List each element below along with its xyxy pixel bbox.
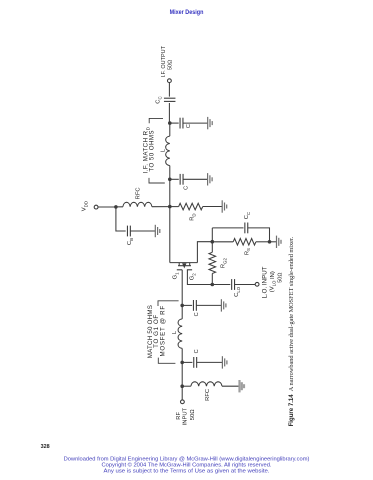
wire IF node2 to supply node (169, 179, 171, 206)
svg-text:C: C (194, 349, 200, 353)
wire drain lead (169, 207, 171, 263)
wire source lead to Rs node (197, 242, 212, 263)
label G2 (189, 273, 196, 281)
svg-text:CLO: CLO (234, 286, 241, 297)
wire RF node1 to shunt C (182, 304, 192, 306)
resistor RG2 (209, 242, 216, 285)
svg-text:Mixer Design: Mixer Design (170, 9, 204, 16)
svg-text:CB: CB (127, 238, 134, 245)
label RFC (RF input) (205, 389, 211, 401)
wire Cc branch right part (248, 228, 270, 242)
svg-text:Any use is subject to the Term: Any use is subject to the Terms of Use a… (104, 468, 270, 474)
wire C to ground (IF1) (183, 122, 208, 124)
ground RF shunt 1 (221, 299, 226, 311)
svg-text:MOSFET @ RF: MOSFET @ RF (159, 305, 166, 356)
transistor Q1 dual-gate MOSFET body (170, 263, 198, 270)
wire CB to ground (130, 230, 155, 232)
wire IF node1 to shunt C (170, 122, 179, 124)
node junction RG2/CLO (C) (211, 283, 215, 287)
wire Cc branch left part (212, 227, 243, 229)
ground Rs (277, 236, 282, 248)
node junction source/RG2 (A) (211, 240, 215, 244)
wire IF node1 to L (169, 123, 171, 136)
capacitor C (RF shunt 1) (193, 300, 196, 311)
svg-text:RS: RS (244, 248, 251, 255)
label C (IF shunt 2) (184, 186, 190, 190)
label C (RF shunt 2) (194, 349, 200, 353)
wire node B to ground (270, 241, 277, 243)
ground CB (155, 225, 160, 237)
wire IF terminal to Cc (168, 83, 170, 97)
label page number 328 (41, 444, 50, 450)
label RG2 (221, 258, 228, 269)
svg-text:Figure 7.14 A narrowband acti: Figure 7.14 A narrowband active dual-gat… (288, 236, 295, 426)
node junction IF-1 (168, 121, 172, 125)
wire C to ground (RF1) (196, 304, 221, 306)
capacitor C (IF shunt 2) (180, 174, 183, 185)
wire C to ground (IF2) (183, 178, 208, 180)
label I.F. MATCH RD TO 50 OHMS (143, 126, 156, 173)
node junction RF-2 (180, 361, 184, 365)
wire L to IF node 2 (169, 166, 171, 180)
bracket RF match top mark (158, 301, 179, 306)
node junction drain/supply (168, 205, 172, 209)
node junction Rs/Cc/ground (B) (268, 240, 272, 244)
capacitor CLO (232, 279, 235, 290)
svg-text:TO 50 OHMS: TO 50 OHMS (149, 130, 156, 172)
label L (RF) (172, 330, 178, 334)
wire Cc to IF node 1 (168, 103, 170, 123)
wire node C to CLO (212, 284, 230, 286)
capacitor C (RF shunt 2) (194, 357, 197, 368)
label CB (127, 238, 134, 245)
svg-text:CC: CC (156, 96, 163, 103)
wire RFC to drain node (152, 206, 170, 208)
label figure caption (288, 236, 295, 426)
svg-text:RFC: RFC (136, 187, 142, 199)
label C (RF shunt 1) (194, 312, 200, 316)
label C (IF shunt 1) (186, 124, 192, 128)
ground RF shunt 2 (222, 356, 227, 368)
wire G1 lead upper (181, 270, 183, 306)
header running head 'Mixer Design' (170, 9, 204, 16)
label RD (190, 213, 197, 220)
footer line 1 (64, 457, 310, 463)
capacitor CB (supply bypass) (127, 226, 130, 237)
svg-text:50Ω: 50Ω (278, 273, 284, 283)
inductor L (IF match) (166, 136, 170, 166)
capacitor Cc (IF output coupling) (164, 98, 176, 101)
wire VDD to junction (98, 206, 116, 208)
wire RFC to ground (222, 385, 240, 387)
label CLO (234, 286, 241, 297)
svg-text:INPUT: INPUT (183, 407, 189, 425)
node L.O. INPUT terminal (255, 282, 259, 286)
svg-text:CC: CC (244, 212, 251, 219)
svg-text:50Ω: 50Ω (167, 60, 173, 70)
bracket IF match top mark (149, 118, 163, 123)
svg-text:C: C (184, 186, 190, 190)
svg-text:RD: RD (190, 213, 197, 220)
capacitor Cc (source bypass) (245, 223, 248, 234)
svg-text:C: C (186, 124, 192, 128)
wire node A to Rs (212, 241, 233, 243)
label L.O. INPUT (VLO IN) 50 ohms (261, 266, 283, 298)
svg-text:C: C (194, 312, 200, 316)
ground RD (222, 200, 227, 212)
wire drain node to RD (170, 206, 179, 208)
svg-text:I.F. OUTPUT: I.F. OUTPUT (161, 45, 167, 77)
node VDD terminal (94, 205, 98, 209)
wire RF node1 to L (181, 305, 183, 319)
resistor Rs (233, 239, 256, 246)
node RF INPUT terminal (181, 400, 185, 404)
wire RF node2 to RFC node (181, 362, 183, 386)
wire junction to RFC (116, 206, 123, 208)
ground RFC (light) (240, 380, 245, 392)
wire CLO to LO terminal (235, 284, 256, 286)
svg-text:RG2: RG2 (221, 258, 228, 269)
wire C to ground (RF2) (197, 361, 223, 363)
svg-text:(VLO IN): (VLO IN) (270, 271, 277, 292)
svg-text:G2: G2 (189, 273, 196, 281)
svg-text:L.O. INPUT: L.O. INPUT (261, 266, 268, 298)
wire CB branch down (116, 207, 126, 231)
label RFC (supply) (136, 187, 142, 199)
node junction VDD/CB (114, 205, 118, 209)
wire RD to ground (203, 206, 223, 208)
svg-text:RFC: RFC (205, 389, 211, 401)
node I.F. OUTPUT terminal (168, 79, 172, 83)
wire L to RF node 2 (181, 348, 183, 362)
label VDD (81, 201, 88, 211)
inductor RFC (supply choke) (123, 202, 152, 206)
resistor RD (179, 203, 203, 210)
label Cc (source bypass) (244, 212, 251, 219)
ground IF shunt 1 (208, 117, 213, 129)
svg-text:VDD: VDD (81, 201, 88, 211)
node junction RF-1 (180, 304, 184, 308)
wire G2 lead (187, 270, 212, 285)
wire RF node to terminal (181, 386, 183, 400)
footer line 2 (102, 462, 272, 469)
ground IF shunt 2 (208, 173, 213, 185)
bracket RF match bottom mark (158, 358, 175, 364)
svg-text:328: 328 (41, 444, 50, 450)
label RF INPUT 50 ohms (176, 407, 196, 425)
svg-text:50Ω: 50Ω (190, 409, 196, 420)
wire Rs to node B (256, 241, 270, 243)
label I.F. OUTPUT 50 ohms (161, 45, 173, 77)
footer line 3 (104, 468, 270, 474)
inductor RFC (RF input choke) (191, 382, 222, 386)
svg-text:RF: RF (176, 412, 182, 420)
svg-text:G1: G1 (172, 272, 179, 280)
wire RF node2 to shunt C (182, 361, 192, 363)
label Cc (156, 96, 163, 103)
label MATCH 50 OHMS TO G1 OF MOSFET @ RF (147, 305, 166, 358)
wire node A up to Cc branch (211, 228, 213, 242)
node junction IF-2 (168, 178, 172, 182)
inductor L (RF match) (178, 319, 182, 349)
node junction RF input/RFC (180, 384, 184, 388)
label L (IF) (160, 148, 166, 152)
wire IF node2 to shunt C (170, 178, 179, 180)
capacitor C (IF shunt 1) (180, 118, 183, 129)
label Rs (244, 248, 251, 255)
label G1 (172, 272, 179, 280)
bracket IF match bottom mark (149, 178, 165, 183)
wire RFC branch (182, 385, 191, 387)
